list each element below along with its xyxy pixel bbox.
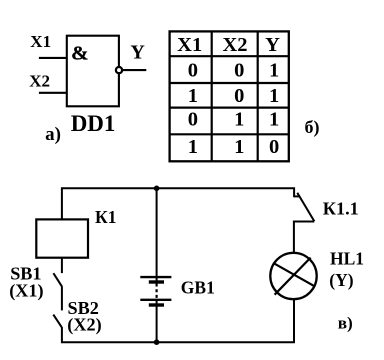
svg-text:1: 1 xyxy=(234,136,244,158)
wire battery top lead xyxy=(156,188,158,282)
contact K1.1 seat xyxy=(294,195,300,197)
svg-text:(X2): (X2) xyxy=(67,314,101,335)
svg-text:К1.1: К1.1 xyxy=(323,198,359,218)
lamp HL1 circle xyxy=(270,253,316,299)
svg-text:1: 1 xyxy=(269,109,279,131)
svg-text:X2: X2 xyxy=(29,72,50,91)
truth table frame xyxy=(170,31,289,161)
battery GB1 cell1 long plate xyxy=(140,276,171,278)
wire Y output xyxy=(123,69,147,71)
junction top battery tap xyxy=(154,186,160,192)
svg-text:б): б) xyxy=(305,117,320,138)
svg-text:К1: К1 xyxy=(95,207,116,227)
wire SB1 to SB2 xyxy=(61,286,63,310)
lamp HL1 cross stroke B xyxy=(273,263,314,286)
svg-text:DD1: DD1 xyxy=(71,111,116,136)
wire battery bottom lead xyxy=(156,300,158,343)
battery GB1 cell2 long plate xyxy=(140,299,171,301)
battery GB1 dashed middle link xyxy=(156,284,158,300)
truth table header text xyxy=(177,34,280,158)
svg-text:(Y): (Y) xyxy=(329,270,353,290)
svg-text:1: 1 xyxy=(188,136,198,158)
svg-text:X1: X1 xyxy=(30,32,51,51)
svg-text:в): в) xyxy=(338,313,353,332)
svg-text:0: 0 xyxy=(234,59,244,81)
wire contact bottom to lamp xyxy=(294,222,314,253)
svg-text:&: & xyxy=(71,42,88,64)
svg-text:X2: X2 xyxy=(222,34,247,56)
contact K1.1 blade xyxy=(297,193,314,222)
battery GB1 cell1 short plate xyxy=(149,280,164,283)
svg-text:1: 1 xyxy=(234,109,244,131)
switch SB2 blade xyxy=(53,315,61,328)
wire relay to SB1 xyxy=(61,258,63,273)
svg-text:1: 1 xyxy=(188,85,198,107)
inversion bubble on DD1 output xyxy=(116,67,122,73)
svg-text:0: 0 xyxy=(188,59,198,81)
svg-text:HL1: HL1 xyxy=(330,249,364,269)
lamp HL1 cross stroke A xyxy=(275,258,311,295)
svg-text:(X1): (X1) xyxy=(9,281,43,302)
relay coil K1 xyxy=(36,219,88,257)
wire bottom rail xyxy=(62,299,294,342)
svg-text:1: 1 xyxy=(269,85,279,107)
svg-text:GB1: GB1 xyxy=(181,278,215,298)
svg-text:0: 0 xyxy=(234,85,244,107)
switch SB1 blade xyxy=(53,273,62,286)
wire X2 input xyxy=(39,92,67,94)
junction bottom battery tap xyxy=(154,339,160,345)
logic gate DD1 body xyxy=(67,36,119,107)
battery GB1 cell2 short plate xyxy=(149,303,164,306)
svg-text:Y: Y xyxy=(130,41,145,63)
svg-text:а): а) xyxy=(45,124,61,145)
svg-text:0: 0 xyxy=(269,136,279,158)
svg-text:0: 0 xyxy=(188,109,198,131)
wire X1 input xyxy=(39,57,67,59)
svg-text:Y: Y xyxy=(265,34,280,56)
wire top rail xyxy=(62,188,294,219)
svg-text:X1: X1 xyxy=(177,34,202,56)
svg-text:1: 1 xyxy=(269,59,279,81)
